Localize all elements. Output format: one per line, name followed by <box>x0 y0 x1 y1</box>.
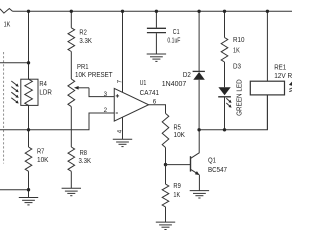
svg-text:R2: R2 <box>79 28 86 36</box>
plus input mark <box>116 95 119 97</box>
svg-text:U1: U1 <box>140 79 147 87</box>
wire bottom-left stub <box>0 189 29 191</box>
svg-text:3.3K: 3.3K <box>79 37 92 45</box>
svg-text:R7: R7 <box>37 148 44 156</box>
transistor Q1 BC547 <box>190 156 192 171</box>
svg-text:7: 7 <box>117 79 124 83</box>
resistor R7 <box>28 130 30 147</box>
resistor R2 <box>70 11 72 28</box>
svg-text:12V RELAY: 12V RELAY <box>274 72 292 80</box>
svg-text:1K: 1K <box>173 191 180 199</box>
svg-text:1N4007: 1N4007 <box>162 80 187 88</box>
resistor R9 <box>165 165 167 185</box>
ground pin 4 <box>113 138 132 140</box>
svg-text:D2: D2 <box>183 71 191 79</box>
svg-text:10K PRESET: 10K PRESET <box>75 71 113 79</box>
LED D3 <box>218 87 230 95</box>
ground R9 <box>156 221 175 223</box>
svg-text:D3: D3 <box>233 62 241 70</box>
wire collector rail <box>199 95 267 130</box>
wire LDR bottom to mid rail <box>28 105 30 129</box>
capacitor C1 <box>155 11 157 27</box>
svg-text:10K: 10K <box>37 156 49 164</box>
wire top supply rail <box>13 10 293 12</box>
wire LDR branch from top rail <box>28 11 30 79</box>
resistor R10 <box>224 11 226 37</box>
svg-text:R9: R9 <box>173 182 180 190</box>
ground R8 <box>62 187 81 189</box>
wire left stub into enclosure <box>0 62 29 64</box>
LDR light arrows <box>11 81 16 85</box>
relay contact (cut at right edge) <box>289 82 292 86</box>
LDR R4 <box>21 79 38 105</box>
resistor R1 1K (horizontal, cut at left edge) <box>0 9 13 14</box>
minus input mark <box>116 112 118 114</box>
wire pin 4 <box>122 117 124 139</box>
node mid rail LDR <box>27 128 30 131</box>
node LDR top stub <box>27 61 30 64</box>
wire pin 6 to R5 <box>149 105 166 114</box>
ground R7 <box>19 197 38 199</box>
relay RE1 coil <box>266 11 268 81</box>
node junctions on top rail <box>27 10 30 13</box>
wire base <box>166 164 191 166</box>
svg-text:4: 4 <box>117 129 124 133</box>
node R7 ground stub <box>27 188 30 191</box>
svg-text:GREEN LED: GREEN LED <box>236 79 244 116</box>
svg-text:C1: C1 <box>173 28 180 36</box>
wire pin 7 <box>122 11 124 92</box>
op-amp U1 CA741 <box>114 88 148 121</box>
svg-text:CA741: CA741 <box>140 89 160 97</box>
svg-text:0.1uF: 0.1uF <box>167 36 180 44</box>
PR1 wiper arrow to pin 3 <box>78 87 89 89</box>
resistor R8 <box>70 107 72 147</box>
svg-text:1K: 1K <box>4 20 11 28</box>
svg-text:R4: R4 <box>39 80 46 88</box>
svg-text:R10: R10 <box>233 36 245 44</box>
resistor R5 <box>162 113 169 147</box>
wire mid rail to op-amp pin 2 <box>0 113 114 130</box>
node base junction <box>164 163 167 166</box>
svg-text:LDR: LDR <box>39 88 52 96</box>
ground Q1 emitter <box>190 190 209 192</box>
svg-text:2: 2 <box>104 107 108 114</box>
ground C1 <box>147 53 166 55</box>
preset PR1 <box>70 52 72 80</box>
svg-text:3: 3 <box>104 91 108 98</box>
svg-text:3.3K: 3.3K <box>79 157 92 165</box>
dashed enclosure boundary <box>3 52 5 164</box>
svg-text:1K: 1K <box>233 46 240 54</box>
svg-text:BC547: BC547 <box>208 166 227 174</box>
svg-text:Q1: Q1 <box>208 156 216 164</box>
svg-text:RE1: RE1 <box>274 63 286 71</box>
node D2 collector <box>197 128 200 131</box>
diode D2 1N4007 <box>198 11 200 71</box>
svg-text:PR1: PR1 <box>77 63 89 71</box>
svg-text:10K: 10K <box>174 131 186 139</box>
node D3 bottom <box>223 128 226 131</box>
